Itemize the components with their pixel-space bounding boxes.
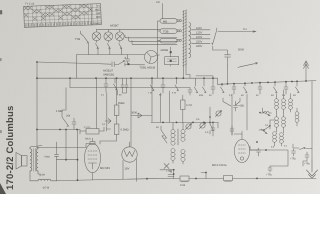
antenna bbox=[304, 61, 309, 81]
svg-text:18Y: 18Y bbox=[125, 167, 130, 171]
wire: cable harness to dial bbox=[125, 35, 177, 45]
output transformer bbox=[30, 146, 42, 177]
wire: lamp bottom bus bbox=[77, 55, 145, 79]
component row: switch bbox=[151, 78, 155, 91]
primary tap 150V bbox=[192, 38, 211, 40]
svg-text:TYB: TYB bbox=[75, 37, 81, 41]
wire: transformer left leads bbox=[158, 21, 161, 78]
svg-text:220: 220 bbox=[156, 1, 161, 4]
transformer T primary winding bbox=[189, 23, 191, 58]
svg-text:0.1: 0.1 bbox=[243, 28, 247, 31]
svg-text:MC1 CH/Ja: MC1 CH/Ja bbox=[212, 163, 227, 167]
capacitor C11 bbox=[303, 152, 309, 166]
label 18Y bbox=[125, 167, 130, 171]
resistor R2 bbox=[100, 124, 119, 144]
vertical title: 170-2/2 Columbus bbox=[5, 105, 16, 190]
resistor R3 bbox=[181, 95, 185, 122]
tube V3 bbox=[234, 134, 258, 163]
svg-text:+7R): +7R) bbox=[290, 158, 296, 161]
svg-text:50: 50 bbox=[256, 94, 259, 97]
svg-text:+7R): +7R) bbox=[266, 174, 272, 177]
wire: grid line bbox=[37, 130, 80, 135]
svg-text:0,1: 0,1 bbox=[284, 145, 288, 148]
switch TYB bbox=[81, 31, 89, 55]
wire: risers to V1 cluster bbox=[97, 79, 107, 129]
junction dots bbox=[36, 129, 78, 131]
label choke bbox=[42, 187, 50, 190]
svg-text:TOB: TOB bbox=[163, 31, 169, 34]
svg-text:0,5: 0,5 bbox=[196, 118, 200, 121]
wire: anode link bbox=[37, 144, 90, 148]
junction dots right mid bbox=[209, 112, 265, 131]
capacitor C7 bbox=[104, 127, 111, 131]
svg-text:125V: 125V bbox=[196, 32, 202, 35]
IF transformer coils upper bbox=[171, 129, 185, 145]
label TOB1 A/EUB bbox=[140, 66, 156, 69]
switch S2 bbox=[119, 61, 125, 66]
label table corner bbox=[25, 3, 35, 6]
switch under L3 bbox=[119, 41, 122, 55]
wire: lamp top bus bbox=[97, 29, 161, 32]
diode D2 bbox=[131, 113, 152, 118]
capacitor C10 bbox=[292, 149, 296, 156]
switch S5 bbox=[162, 136, 167, 143]
switch S4 bbox=[161, 126, 167, 138]
junction dots cathode bbox=[65, 159, 78, 161]
transformer T winding 3 bbox=[160, 39, 181, 44]
switch S3 bbox=[62, 88, 69, 127]
label 5000 bbox=[238, 49, 244, 52]
svg-text:5000: 5000 bbox=[238, 49, 244, 52]
svg-text:0,1: 0,1 bbox=[102, 123, 106, 126]
svg-text:20k: 20k bbox=[66, 115, 71, 118]
fuse capacitor 5000 bbox=[213, 50, 231, 66]
label +7R bbox=[304, 163, 310, 166]
dial lamp L2 bbox=[104, 32, 113, 41]
component row: switch bbox=[114, 78, 118, 95]
label CH3 bbox=[180, 184, 186, 187]
switch S10 bbox=[259, 126, 271, 131]
svg-text:CH3: CH3 bbox=[180, 184, 186, 187]
switch S6 bbox=[263, 108, 271, 116]
label 20kΩ bbox=[66, 115, 71, 118]
junction square bbox=[128, 63, 130, 65]
capacitor C16 bbox=[124, 55, 129, 65]
component row: switch bbox=[194, 78, 198, 93]
wire: riser bbox=[131, 78, 152, 146]
wire: risers to mid bus bbox=[160, 91, 169, 122]
switch contact table bbox=[24, 4, 102, 28]
svg-text:-10 W: -10 W bbox=[42, 187, 50, 190]
svg-text:50: 50 bbox=[159, 94, 162, 97]
svg-text:5R: 5R bbox=[241, 94, 244, 97]
label 0.1MΩ bbox=[118, 102, 124, 105]
transformer T winding MB bbox=[160, 19, 181, 24]
wire: vertical x247 bbox=[246, 94, 248, 130]
dial drive C1 bbox=[145, 51, 158, 64]
component row: cap bbox=[161, 78, 165, 93]
label MCL CH/Ja bbox=[212, 163, 227, 167]
component row: switch bbox=[175, 78, 179, 91]
component row: cap bbox=[188, 88, 192, 95]
wire: cathode net bbox=[57, 130, 78, 181]
svg-text:+7R): +7R) bbox=[304, 163, 310, 166]
svg-text:TOB1 A/EUB: TOB1 A/EUB bbox=[140, 66, 156, 69]
component row: cap bbox=[211, 78, 215, 94]
wire: V3 right bbox=[250, 150, 288, 166]
svg-text:+GB1: +GB1 bbox=[238, 105, 245, 108]
switch S9 bbox=[210, 124, 214, 131]
label TYB bbox=[75, 37, 81, 41]
dial lamp L1 bbox=[92, 32, 101, 41]
main bus 1 bbox=[37, 78, 218, 84]
tube V1 output bbox=[85, 138, 101, 173]
label 3000 bbox=[131, 112, 137, 115]
label 1MΩ bbox=[56, 110, 63, 113]
trimmer CT2 bbox=[200, 123, 206, 129]
paper edge artifacts bbox=[0, 10, 6, 194]
capacitor C8 bbox=[257, 148, 261, 156]
svg-text:5 W: 5 W bbox=[172, 92, 177, 95]
label C17 bbox=[266, 174, 272, 177]
capacitor C2 bbox=[112, 62, 114, 67]
svg-text:VAB/GB1: VAB/GB1 bbox=[103, 73, 115, 76]
svg-text:170-2/2 Columbus: 170-2/2 Columbus bbox=[5, 105, 16, 190]
wire: left riser bbox=[36, 62, 38, 148]
svg-text:A/GB1/7: A/GB1/7 bbox=[103, 69, 114, 72]
tube V2 bbox=[122, 142, 137, 162]
svg-text:0,5H: 0,5H bbox=[40, 174, 45, 177]
wire: bottom rail bbox=[57, 178, 316, 180]
svg-text:1 MΩ: 1 MΩ bbox=[56, 110, 63, 113]
resistor R6 bbox=[224, 176, 233, 182]
svg-text:0,1: 0,1 bbox=[265, 124, 269, 127]
label +GB1 bbox=[238, 105, 245, 108]
junction dot bbox=[173, 169, 175, 175]
svg-text:A/GB/7: A/GB/7 bbox=[110, 24, 119, 27]
svg-text:240V: 240V bbox=[196, 45, 202, 48]
svg-text:0,5: 0,5 bbox=[282, 94, 286, 97]
resistor R4 bbox=[80, 129, 104, 135]
switch S8 bbox=[300, 147, 313, 149]
wire: upper link bbox=[196, 76, 213, 78]
primary tap 220V bbox=[192, 42, 211, 44]
component row: switch bbox=[203, 78, 207, 93]
RF coil bank lower bbox=[270, 108, 299, 146]
primary tap 110V bbox=[192, 29, 211, 31]
svg-text:25kΩ: 25kΩ bbox=[118, 102, 124, 105]
primary tap 125V bbox=[192, 33, 211, 35]
svg-text:6RK: 6RK bbox=[199, 94, 204, 97]
capacitor C12 bbox=[234, 101, 238, 111]
main bus 2 bbox=[218, 81, 317, 85]
svg-text:MN 53V: MN 53V bbox=[100, 166, 110, 170]
svg-text:0,1: 0,1 bbox=[101, 94, 105, 97]
label +7MΩ bbox=[44, 156, 51, 159]
svg-text:50: 50 bbox=[119, 94, 122, 97]
svg-text:5R: 5R bbox=[293, 94, 296, 97]
svg-text:3000: 3000 bbox=[131, 112, 137, 115]
trimmer CT3 bbox=[216, 111, 222, 117]
junction dots bus1 bbox=[36, 61, 307, 85]
junction dots mid bbox=[162, 122, 214, 124]
ground bbox=[307, 160, 318, 178]
wire: mains lead bbox=[218, 31, 256, 32]
trimmer CT1 bbox=[186, 124, 192, 130]
svg-text:GRMB: GRMB bbox=[161, 49, 169, 52]
svg-text:220V: 220V bbox=[196, 41, 202, 44]
component row: switch bbox=[274, 82, 278, 93]
capacitor C6 bbox=[217, 122, 219, 128]
wire: top lead bbox=[162, 4, 164, 19]
junction dots rail bbox=[77, 172, 258, 182]
svg-text:50: 50 bbox=[156, 126, 159, 129]
wire: right links bbox=[250, 120, 299, 150]
component row: cap bbox=[232, 84, 236, 94]
coil loop small bbox=[260, 112, 272, 113]
svg-text:50kΩ: 50kΩ bbox=[85, 138, 91, 141]
capacitor C17 bbox=[268, 166, 272, 172]
wire: right edge riser bbox=[311, 81, 313, 160]
IF transformer coils lower bbox=[171, 122, 185, 164]
svg-text:MW: MW bbox=[96, 16, 101, 19]
resistor R1 bbox=[114, 78, 119, 115]
transformer T winding TOB bbox=[160, 29, 181, 34]
label voltages bbox=[196, 27, 202, 48]
capacitor C9 bbox=[168, 170, 174, 177]
label A/GB1/7 bbox=[103, 69, 115, 76]
switch under L1 bbox=[96, 41, 99, 55]
component row: cap bbox=[258, 83, 262, 94]
component row: switch bbox=[221, 84, 225, 93]
wire: V2 cathode bbox=[93, 159, 137, 182]
wire: mains cord plug bbox=[238, 62, 258, 67]
svg-text:4,5: 4,5 bbox=[205, 131, 209, 134]
RF coil bank upper bbox=[275, 90, 293, 112]
wire: mid right bbox=[234, 131, 242, 134]
component row: cap bbox=[104, 78, 108, 92]
svg-text:MB: MB bbox=[163, 21, 167, 24]
label MB bbox=[163, 21, 167, 24]
tiny labels row bbox=[101, 92, 296, 149]
svg-text:+7R1: +7R1 bbox=[166, 170, 173, 173]
svg-text:0.7M: 0.7M bbox=[186, 104, 192, 107]
resistor R5 bbox=[180, 176, 189, 182]
junction dot bbox=[256, 141, 267, 151]
label GRMB bbox=[161, 49, 169, 52]
svg-text:110V: 110V bbox=[196, 27, 202, 30]
switch under L2 bbox=[107, 41, 110, 55]
wire: Y link bbox=[223, 98, 240, 106]
component row: switch bbox=[244, 83, 248, 93]
label ticks bbox=[84, 126, 92, 129]
choke bbox=[30, 176, 57, 181]
transformer T core bbox=[182, 10, 187, 67]
wire: mid bus bbox=[151, 121, 218, 123]
svg-text:50: 50 bbox=[209, 94, 212, 97]
label 0.3MΩ bbox=[121, 129, 129, 132]
label top bbox=[156, 1, 161, 4]
svg-text:+7MΩ: +7MΩ bbox=[44, 156, 51, 159]
capacitor C5 bbox=[211, 122, 215, 136]
capacitor C4 bbox=[72, 118, 76, 130]
wire: vertical x232 bbox=[231, 94, 233, 135]
component row: switch bbox=[296, 81, 300, 93]
wire: vertical x210 bbox=[209, 107, 211, 134]
label TOB bbox=[163, 31, 169, 34]
component row: cap bbox=[284, 82, 288, 94]
svg-text:TY 1-16: TY 1-16 bbox=[25, 3, 35, 6]
capacitor C13 bbox=[230, 126, 234, 135]
voltage selector switch bbox=[212, 28, 217, 50]
wire: crossing bbox=[160, 164, 174, 179]
sub rail bbox=[70, 78, 190, 87]
label A/GB/7 bbox=[110, 24, 119, 27]
wire: AC switch row bbox=[37, 62, 145, 65]
capacitor C15 bbox=[55, 142, 59, 181]
label +7R1 bbox=[166, 170, 173, 173]
speaker LS bbox=[16, 153, 27, 170]
label MN 53V bbox=[100, 166, 110, 170]
tiny labels mid bbox=[40, 118, 269, 177]
wire: transformer bottom drops bbox=[183, 66, 227, 84]
label +7R bbox=[290, 158, 296, 161]
svg-text:6R: 6R bbox=[271, 94, 274, 97]
component row: cap pair bbox=[121, 78, 128, 93]
label 0.1 bbox=[243, 28, 247, 31]
svg-text:150V: 150V bbox=[196, 36, 202, 39]
wire: rail stub bbox=[201, 173, 206, 179]
label 0.7M bbox=[186, 104, 192, 107]
transformer T field box bbox=[165, 47, 179, 66]
svg-text:GRAMO: GRAMO bbox=[91, 22, 101, 25]
diode D1 bbox=[105, 116, 117, 125]
svg-text:0.3MΩ: 0.3MΩ bbox=[121, 129, 129, 132]
switch S7 bbox=[261, 129, 267, 134]
dial lamp L3 bbox=[115, 32, 124, 41]
